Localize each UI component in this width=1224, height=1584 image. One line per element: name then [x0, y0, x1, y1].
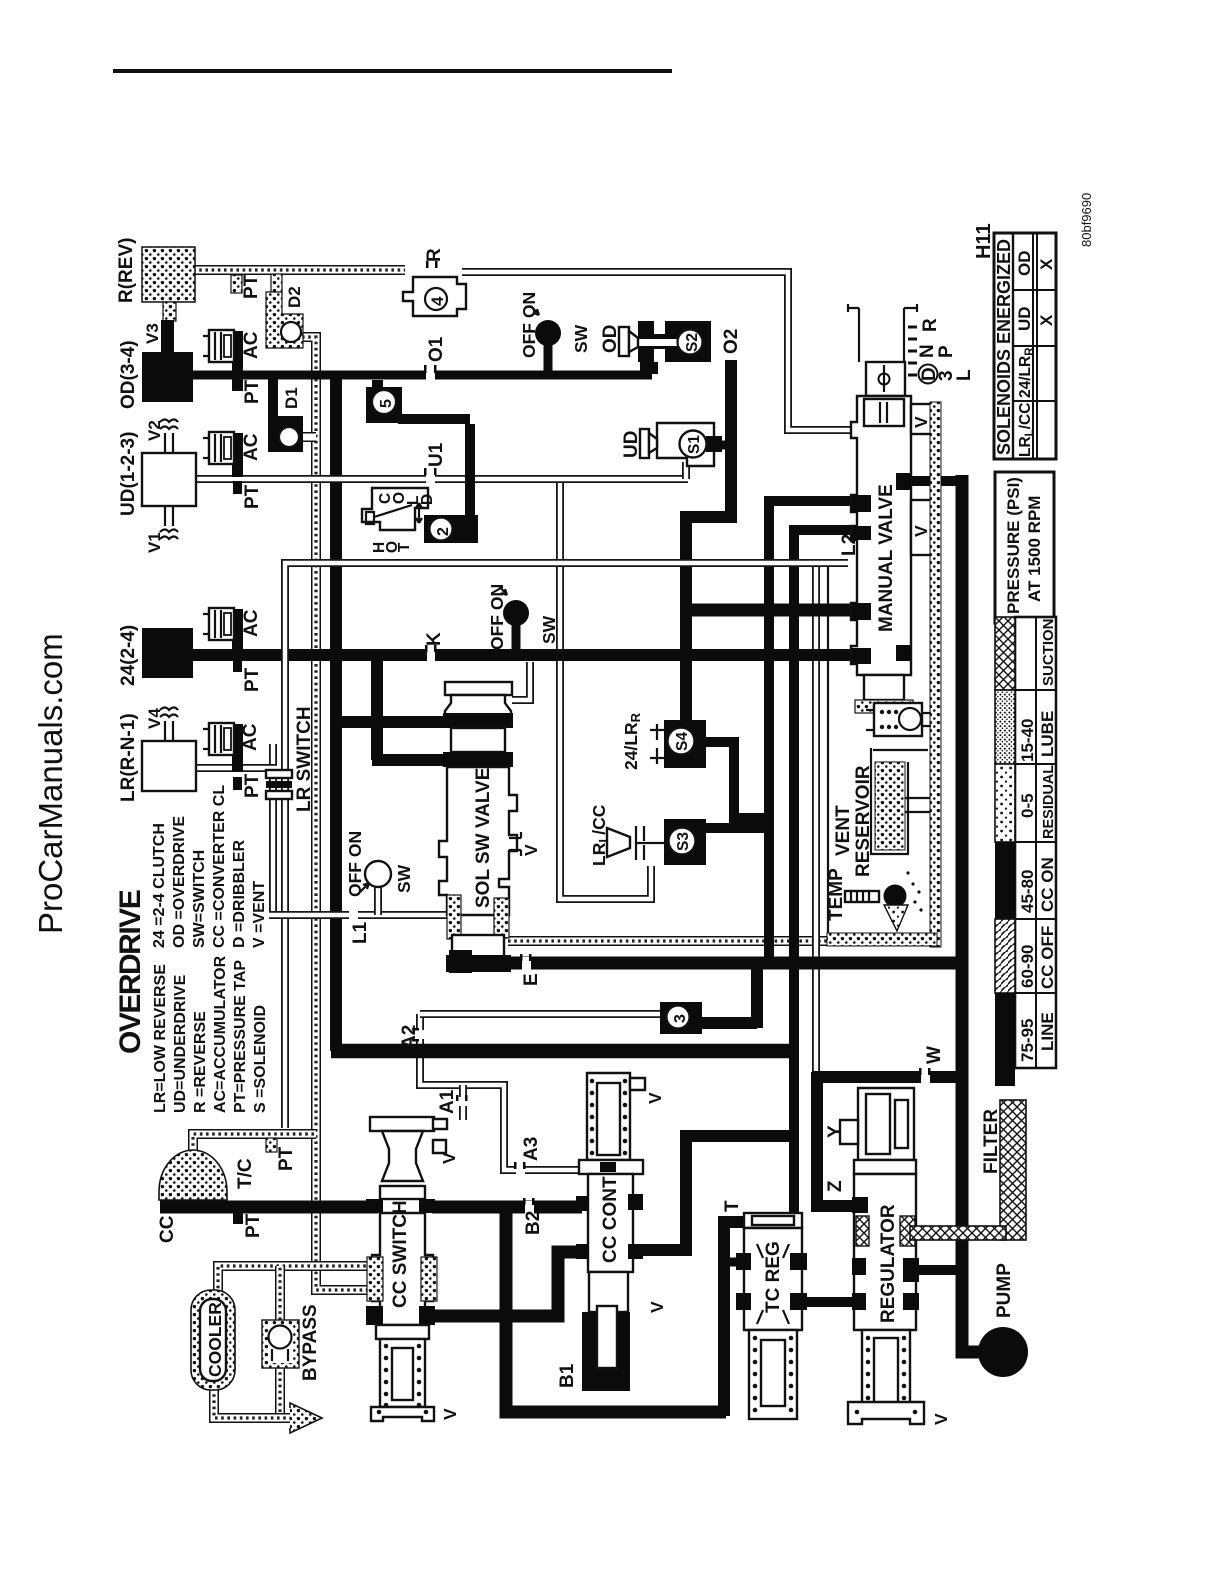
wire: S4 output — [703, 742, 770, 818]
wire: B2 line — [432, 1201, 582, 1214]
pump — [978, 1327, 1028, 1377]
svg-text:PT: PT — [242, 667, 263, 692]
svg-text:UD: UD — [621, 431, 642, 458]
valve CC SWITCH — [366, 1117, 447, 1421]
svg-text:VENT: VENT — [833, 805, 854, 856]
svg-text:TEMP: TEMP — [826, 868, 847, 921]
svg-text:S2: S2 — [684, 333, 701, 352]
wire: vent enclosure left border — [827, 567, 829, 945]
switch SW1 (OD off/on) — [531, 306, 561, 346]
node B2 gap — [523, 1198, 535, 1214]
wire: S4 line to manual valve — [681, 604, 858, 617]
svg-text:V: V — [931, 1413, 951, 1425]
thermometer TEMP — [845, 871, 923, 931]
wire: line to circle 3 — [420, 1010, 664, 1018]
wire: UD branch down to S3 pilot — [560, 479, 651, 899]
wire: A1 stub to CC switch — [459, 1085, 467, 1120]
svg-text:PT: PT — [242, 379, 263, 404]
node U1 gap — [424, 468, 437, 485]
svg-text:V4: V4 — [145, 708, 164, 729]
svg-text:RESERVOIR: RESERVOIR — [853, 765, 874, 877]
svg-text:0-5: 0-5 — [1018, 793, 1037, 818]
svg-text:V: V — [439, 1152, 459, 1164]
vent dribbler — [866, 703, 931, 736]
svg-text:OD =OVERDRIVE: OD =OVERDRIVE — [171, 816, 188, 948]
switch LR SWITCH — [266, 770, 292, 799]
node A1 gap — [456, 1095, 468, 1106]
svg-text:MANUAL VALVE: MANUAL VALVE — [876, 484, 897, 632]
svg-text:D: D — [419, 494, 436, 505]
wire: trunk to pump — [962, 1335, 984, 1352]
wire: sol sw valve drain stipple — [508, 936, 934, 946]
wire: cooler feed from CC switch — [218, 1266, 372, 1294]
node R gap on reverse line — [426, 261, 438, 277]
wire: TC REG left ports tie — [722, 1258, 742, 1267]
node A2 gap — [412, 1028, 426, 1042]
svg-text:CC OFF: CC OFF — [1038, 926, 1057, 989]
svg-text:V: V — [440, 1408, 460, 1420]
wire: D1 stipple out — [300, 432, 316, 442]
svg-text:AC: AC — [241, 331, 262, 359]
svg-text:L1: L1 — [350, 921, 371, 944]
svg-text:SW: SW — [539, 615, 559, 644]
svg-text:FILTER: FILTER — [981, 1109, 1002, 1174]
clutch R(REV) stippled box — [142, 247, 195, 321]
svg-text:T/C: T/C — [235, 1158, 256, 1189]
wire: CC switch lower port to CC CONT — [432, 1252, 585, 1316]
svg-text:OD: OD — [600, 325, 621, 354]
clutch UD(1-2-3) — [142, 453, 196, 506]
svg-text:BYPASS: BYPASS — [300, 1304, 321, 1381]
svg-text:CC ON: CC ON — [1038, 857, 1057, 912]
wire: SW3 stem — [374, 886, 382, 915]
wire: circle3 riser to E line — [699, 961, 757, 1028]
svg-text:D2: D2 — [285, 286, 304, 308]
svg-text:N: N — [917, 344, 938, 358]
svg-text:PT: PT — [243, 1213, 264, 1238]
svg-text:S1: S1 — [686, 435, 703, 454]
swatch suction — [995, 617, 1015, 690]
wire: A2 riser and A3 run — [420, 1014, 585, 1170]
gear selector box — [866, 362, 905, 396]
svg-text:PT=PRESSURE TAP: PT=PRESSURE TAP — [232, 960, 249, 1113]
svg-text:OD: OD — [1015, 251, 1034, 277]
dribbler D1 — [268, 378, 303, 452]
svg-text:S3: S3 — [675, 832, 692, 851]
svg-text:3: 3 — [672, 1014, 689, 1023]
svg-text:24 =2-4 CLUTCH: 24 =2-4 CLUTCH — [151, 823, 168, 948]
valve MANUAL VALVE — [851, 396, 913, 713]
svg-text:24(2-4): 24(2-4) — [118, 625, 139, 686]
node A3 gap — [514, 1162, 526, 1176]
wire: TC REG to regulator — [800, 1297, 856, 1307]
svg-text:UD(1-2-3): UD(1-2-3) — [118, 432, 139, 516]
cooler — [191, 1290, 235, 1390]
wire: left heavy vertical OD to A2 line — [330, 377, 342, 1051]
svg-text:S4: S4 — [674, 732, 691, 751]
wire: SW2 stem — [512, 624, 521, 651]
wire: right thin pair below L2 — [812, 565, 820, 1118]
filter crosshatch bar — [1000, 1100, 1026, 1240]
swatch cc off — [995, 919, 1015, 993]
svg-text:OVERDRIVE: OVERDRIVE — [114, 890, 147, 1054]
svg-text:T: T — [396, 542, 413, 552]
svg-text:D =DRIBBLER: D =DRIBBLER — [231, 840, 248, 948]
wire: cooler return to arrow — [214, 1388, 292, 1418]
gear detent ticks — [908, 327, 917, 375]
pressure tap stub on reverse line — [231, 275, 242, 293]
solenoid S2 — [619, 321, 711, 374]
svg-text:B2: B2 — [523, 1211, 544, 1235]
svg-text:V: V — [647, 1301, 667, 1313]
bypass valve — [262, 1320, 299, 1368]
accumulator AC (LR) — [203, 723, 243, 790]
svg-text:RESIDUAL: RESIDUAL — [1041, 765, 1057, 839]
svg-text:V3: V3 — [143, 323, 162, 344]
svg-text:AC: AC — [241, 609, 262, 637]
svg-text:O2: O2 — [721, 329, 742, 354]
wire: branch to sol sw valve band1 — [336, 716, 445, 728]
wire: D2 stem — [271, 274, 282, 294]
wire: S2 output down to junction, across, down to S4 — [686, 360, 731, 722]
svg-text:ProCarManuals.com: ProCarManuals.com — [32, 633, 69, 934]
torque converter dome — [159, 1150, 227, 1200]
switch SW3 (L1 off/on, open) — [360, 861, 391, 892]
svg-text:CC SWITCH: CC SWITCH — [390, 1200, 411, 1308]
wire: heavy to CC CONT right port — [638, 1136, 796, 1250]
svg-text:5: 5 — [378, 399, 395, 408]
table SOLENOIDS ENERGIZED — [994, 233, 1056, 459]
node V1 — [160, 506, 178, 539]
svg-text:R: R — [424, 248, 445, 262]
svg-text:V2: V2 — [145, 420, 164, 441]
svg-text:CC: CC — [157, 1215, 178, 1243]
wire: A2 heavy line — [331, 1044, 794, 1059]
svg-text:X: X — [1037, 258, 1056, 270]
vent chamber V1 (manual valve) — [911, 404, 931, 434]
svg-text:PT: PT — [241, 274, 262, 299]
svg-text:45-80: 45-80 — [1018, 870, 1037, 913]
svg-text:R(REV): R(REV) — [116, 238, 137, 303]
svg-text:LR(R-N-1): LR(R-N-1) — [118, 713, 139, 802]
wire: E line — [455, 957, 960, 970]
svg-text:R =REVERSE: R =REVERSE — [192, 1011, 209, 1113]
stippled vent border (right of manual valve) — [930, 402, 941, 947]
svg-text:UD: UD — [1015, 306, 1034, 331]
accumulator AC (24) — [203, 608, 243, 672]
node L1 gap — [349, 910, 358, 921]
node W gap — [919, 1068, 931, 1084]
svg-text:LRL/CC: LRL/CC — [589, 804, 611, 866]
svg-text:REGULATOR: REGULATOR — [878, 1204, 899, 1323]
svg-text:LRL/CC: LRL/CC — [1017, 403, 1036, 457]
wire: reverse stippled line — [193, 265, 405, 275]
wire: LR clutch feed — [196, 764, 277, 772]
node V (sol sw valve) — [509, 832, 521, 856]
wire: UD line clutch to S1 — [196, 475, 688, 483]
svg-text:A2: A2 — [399, 1025, 420, 1049]
gear letters — [917, 318, 975, 384]
svg-text:PT: PT — [276, 1146, 297, 1171]
svg-text:W: W — [924, 1046, 945, 1064]
svg-text:SW: SW — [394, 864, 414, 893]
valve 4 (bypass ball) — [403, 277, 466, 316]
accumulator AC (OD) — [203, 330, 243, 391]
svg-text:75-95: 75-95 — [1018, 1019, 1037, 1062]
svg-text:60-90: 60-90 — [1018, 945, 1037, 988]
svg-text:PRESSURE (PSI): PRESSURE (PSI) — [1004, 477, 1023, 614]
pressure tap stub on T/C line — [266, 1138, 277, 1152]
wire: SW1 stem — [544, 344, 553, 372]
wire: manual valve right port to trunk — [905, 476, 964, 486]
svg-text:X: X — [1037, 314, 1056, 326]
wire: 24 clutch K line — [191, 649, 858, 661]
cooler return arrow — [290, 1403, 322, 1433]
wire: bypass down — [275, 1366, 285, 1418]
clutch OD(3-4) — [142, 352, 193, 402]
valve SOL SW VALVE body — [445, 682, 512, 695]
svg-text:TC REG: TC REG — [763, 1241, 784, 1313]
swatch cc on — [995, 842, 1015, 919]
pressure legend table — [995, 617, 1056, 1086]
svg-text:80bf9690: 80bf9690 — [1079, 193, 1094, 247]
gear selector bracket — [848, 304, 917, 362]
svg-text:V: V — [521, 844, 541, 856]
wire: manual valve port A down to E line — [769, 501, 858, 963]
svg-text:V: V — [645, 1092, 665, 1104]
wire: branch to sol sw valve band2 — [372, 657, 447, 760]
svg-text:PT: PT — [242, 484, 263, 509]
wire: long stippled vertical — [302, 337, 372, 1290]
wire: valve4 to manual valve top port — [462, 272, 858, 430]
svg-text:H11: H11 — [973, 223, 995, 259]
svg-text:B1: B1 — [557, 1363, 578, 1388]
svg-text:U1: U1 — [426, 442, 447, 467]
svg-text:PUMP: PUMP — [994, 1263, 1015, 1318]
reservoir — [871, 748, 930, 854]
svg-text:A3: A3 — [521, 1137, 542, 1161]
svg-text:R: R — [920, 318, 941, 332]
svg-text:AT 1500 RPM: AT 1500 RPM — [1025, 496, 1044, 602]
wire: T/C stipple to PT vertical — [193, 1134, 316, 1152]
svg-text:LUBE: LUBE — [1038, 711, 1057, 757]
wire: 5 to thermal valve 2 — [398, 419, 470, 517]
dribbler D2 — [266, 292, 303, 348]
svg-text:AC: AC — [240, 723, 261, 751]
wire: OD line — [190, 371, 652, 380]
svg-text:LINE: LINE — [1038, 1012, 1057, 1051]
svg-text:SOLENOIDS ENERGIZED: SOLENOIDS ENERGIZED — [994, 239, 1014, 455]
pressure tap on CC line — [233, 1212, 243, 1224]
wire: regulator right port to trunk — [916, 1265, 964, 1275]
svg-text:AC=ACCUMULATOR: AC=ACCUMULATOR — [212, 955, 229, 1113]
svg-text:LR=LOW REVERSE: LR=LOW REVERSE — [152, 964, 169, 1113]
swatch residual — [995, 764, 1015, 842]
node V2 — [160, 420, 178, 454]
wire: B2 down to bottom run — [506, 1210, 726, 1412]
svg-text:S =SOLENOID: S =SOLENOID — [252, 1005, 269, 1113]
svg-text:OFF ON: OFF ON — [487, 584, 507, 650]
node V3 stem — [161, 320, 174, 354]
legend column 1 — [152, 955, 269, 1113]
wire: T riser TC REG — [724, 1222, 746, 1416]
node E gap — [520, 954, 532, 970]
valve CC CONT — [576, 1073, 645, 1391]
node O1 gap — [424, 365, 437, 382]
node V4 — [160, 708, 178, 742]
svg-text:Z: Z — [825, 1180, 846, 1192]
svg-text:V: V — [911, 416, 931, 428]
svg-text:UD=UNDERDRIVE: UD=UNDERDRIVE — [172, 974, 189, 1113]
svg-text:V =VENT: V =VENT — [251, 881, 268, 948]
wire: L2 line left frame — [285, 563, 848, 1128]
swatch line — [995, 993, 1015, 1068]
header rule — [113, 69, 672, 73]
wire: S3 output — [703, 823, 770, 833]
valve TC REG — [736, 1213, 807, 1419]
vent chamber V2 (manual valve) — [911, 500, 931, 555]
svg-text:O1: O1 — [426, 336, 447, 362]
svg-text:SOL SW VALVE: SOL SW VALVE — [473, 768, 494, 908]
svg-text:SW: SW — [571, 324, 591, 353]
svg-text:SW=SWITCH: SW=SWITCH — [191, 850, 208, 948]
svg-text:4: 4 — [428, 296, 447, 306]
svg-text:T: T — [722, 1200, 743, 1212]
svg-text:15-40: 15-40 — [1018, 719, 1037, 762]
solenoid S1 — [640, 423, 722, 466]
node K gap — [425, 645, 437, 662]
svg-text:COOLER: COOLER — [205, 1302, 225, 1377]
svg-text:OD(3-4): OD(3-4) — [118, 340, 139, 409]
svg-text:2: 2 — [435, 527, 452, 536]
svg-text:D1: D1 — [282, 387, 301, 409]
legend column 2 — [151, 785, 268, 948]
wire: manual valve port B down to TC REG — [794, 530, 858, 1298]
wire: SOL SW valve top vent stub — [512, 662, 530, 700]
svg-text:CC CONT: CC CONT — [600, 1176, 621, 1263]
svg-text:OFF ON: OFF ON — [519, 292, 539, 358]
svg-text:SUCTION: SUCTION — [1040, 619, 1057, 687]
wire: W line — [812, 1072, 963, 1206]
svg-text:E: E — [521, 973, 542, 986]
svg-text:AC: AC — [241, 433, 262, 461]
valve 5 (shift ball) — [366, 380, 402, 423]
wire: S1 output to S2 line — [708, 441, 733, 450]
stippled vent border (bottom) — [827, 933, 937, 946]
svg-text:K: K — [424, 632, 445, 646]
clutch 24(2-4) — [142, 628, 193, 678]
valve 3 (ball) — [660, 1002, 702, 1034]
svg-text:LR SWITCH: LR SWITCH — [294, 706, 315, 812]
suction crosshatch line — [910, 1226, 1006, 1240]
wire: LR clutch drop to L1 — [269, 744, 277, 915]
wire: L1 line to SOL SW valve — [269, 911, 449, 919]
swatch lube — [995, 690, 1015, 764]
svg-text:P: P — [936, 345, 957, 358]
thermal valve 2 — [362, 488, 478, 543]
solenoid S4 — [650, 720, 706, 768]
svg-text:A1: A1 — [437, 1089, 458, 1114]
svg-text:V1: V1 — [145, 532, 164, 553]
accumulator AC (UD) — [203, 432, 243, 494]
svg-text:OFF ON: OFF ON — [345, 831, 365, 897]
svg-text:PT: PT — [242, 773, 263, 798]
wire: S1 stub to UD line — [682, 462, 690, 479]
switch SW2 (24 off/on) — [499, 586, 529, 626]
valve REGULATOR — [840, 1088, 924, 1424]
svg-text:V: V — [911, 525, 931, 537]
table PRESSURE (PSI) AT 1500 RPM — [995, 472, 1054, 623]
solenoid S3 — [607, 819, 706, 865]
wire: right trunk — [956, 475, 969, 1345]
wire: CC line — [160, 1201, 378, 1214]
svg-text:CC =CONVERTER CL: CC =CONVERTER CL — [211, 785, 228, 948]
swatch end cap — [995, 1068, 1015, 1086]
svg-text:L: L — [954, 369, 975, 381]
wire: bypass branch — [275, 1266, 285, 1320]
clutch LR(R-N-1) — [142, 741, 196, 791]
